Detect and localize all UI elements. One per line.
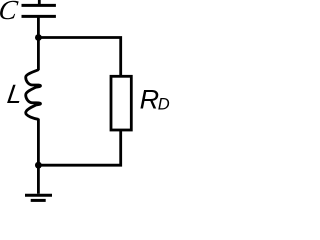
svg-text:C: C xyxy=(0,0,20,25)
svg-text:D: D xyxy=(158,96,170,114)
svg-text:R: R xyxy=(140,84,160,114)
svg-text:L: L xyxy=(5,79,24,109)
